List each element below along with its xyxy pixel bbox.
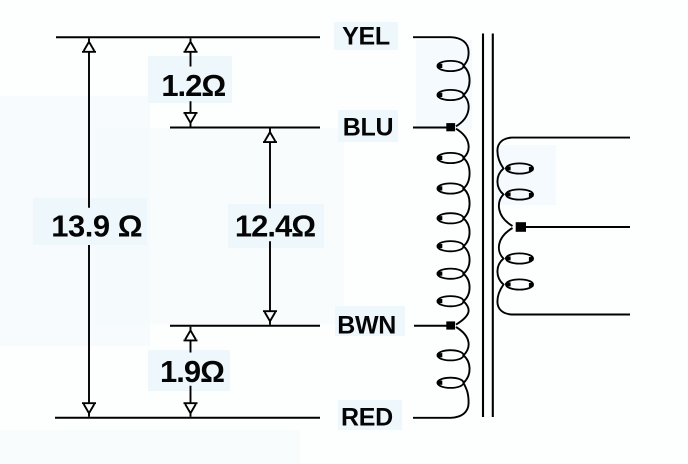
svg-text:YEL: YEL	[342, 22, 390, 50]
primary turn loop 3	[437, 153, 463, 163]
background tint patches (jpeg-style wash)	[0, 22, 556, 464]
transformer T1 secondary winding spine upper half	[497, 138, 630, 226]
transformer T1 primary winding spine YEL-BLU section	[413, 37, 470, 126]
primary turn loop 5	[437, 213, 463, 223]
primary turn loop 1	[437, 61, 463, 71]
wire BWN tap stub	[414, 325, 447, 327]
node BWN tap junction square	[446, 321, 455, 329]
transformer T1 primary winding spine BLU-BWN section	[456, 129, 470, 325]
svg-text:BWN: BWN	[337, 312, 396, 340]
svg-text:13.9 Ω: 13.9 Ω	[51, 208, 142, 243]
primary turn loop 6	[437, 241, 463, 251]
primary turn loop 7	[437, 269, 463, 279]
secondary turn loop 4	[506, 279, 533, 289]
transformer T1 secondary winding spine lower half	[497, 228, 630, 315]
label YEL	[342, 22, 390, 50]
secondary turn loop 2	[506, 189, 533, 199]
node BLU tap junction square	[446, 123, 455, 131]
measurement arrow 13.9 ohm YEL to RED	[82, 38, 96, 417]
measurement arrow 1.9 ohm BWN to RED	[184, 327, 198, 417]
value label 13.9 ohm	[51, 208, 142, 243]
svg-text:12.4Ω: 12.4Ω	[235, 208, 315, 243]
svg-text:1.2Ω: 1.2Ω	[161, 68, 225, 103]
primary turn loop 9	[437, 350, 463, 360]
wire secondary center tap lead	[525, 226, 630, 228]
label RED	[341, 404, 393, 432]
transformer T1 primary winding spine BWN-RED section	[413, 327, 470, 418]
measurement arrow 1.2 ohm YEL to BLU	[184, 38, 198, 126]
primary turn loop 4	[437, 183, 463, 193]
secondary turn loop 3	[506, 253, 533, 263]
label BWN	[337, 312, 396, 340]
primary turn loop 10	[437, 378, 463, 388]
primary turn loop 2	[437, 90, 463, 100]
secondary turn loop 1	[506, 163, 533, 173]
wire BLU left run	[170, 127, 320, 129]
transformer T1 core line right	[492, 34, 494, 418]
node secondary center tap square	[516, 222, 526, 232]
value label 12.4 ohm	[235, 208, 315, 243]
wire YEL left run	[56, 36, 320, 38]
transformer T1 core line left	[482, 34, 484, 418]
measurement arrow 12.4 ohm BLU to BWN	[263, 129, 277, 325]
svg-text:BLU: BLU	[343, 113, 393, 141]
wire BWN left run	[170, 325, 320, 327]
svg-text:1.9Ω: 1.9Ω	[160, 354, 224, 389]
value label 1.9 ohm	[160, 354, 224, 389]
wire RED left run	[55, 417, 320, 419]
wire BLU tap stub	[413, 127, 447, 129]
label BLU	[343, 113, 393, 141]
svg-text:RED: RED	[341, 404, 393, 432]
value label 1.2 ohm	[161, 68, 225, 103]
primary turn loop 8	[437, 296, 463, 306]
